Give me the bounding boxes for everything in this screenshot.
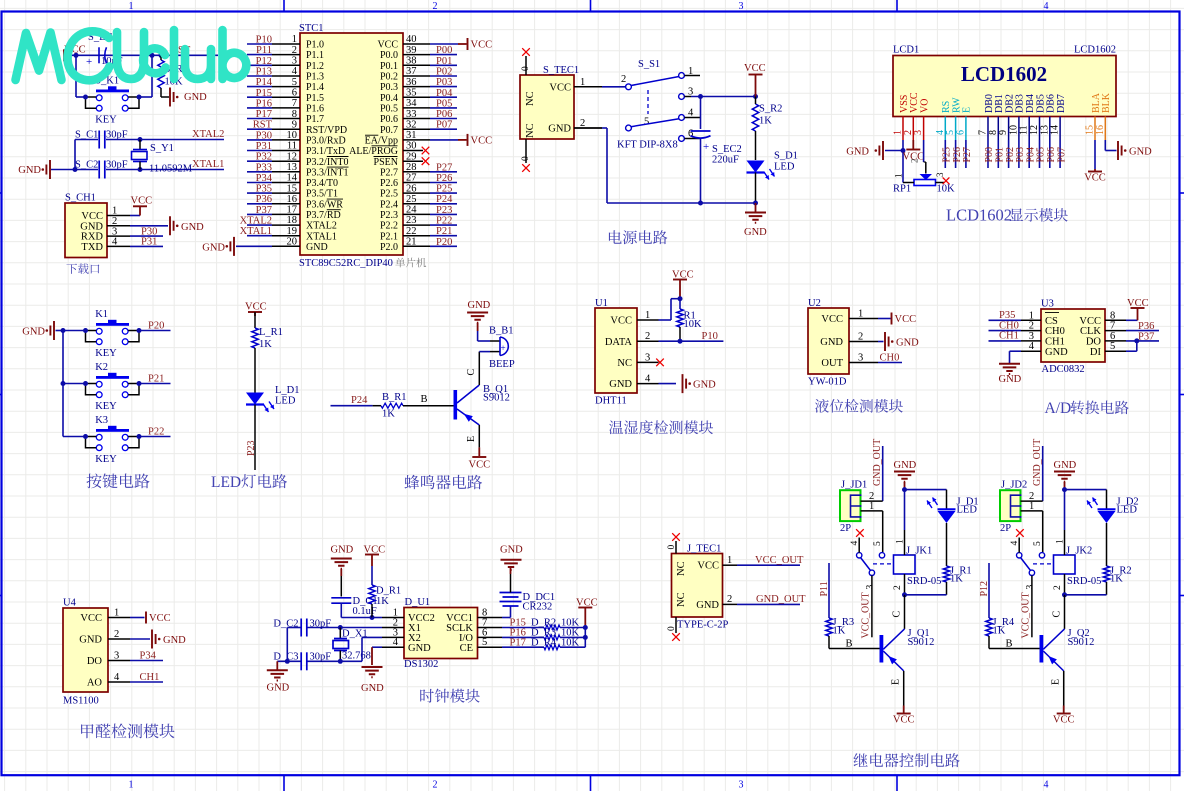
svg-text:28: 28 xyxy=(406,162,417,173)
svg-text:P3.0/RxD: P3.0/RxD xyxy=(306,136,346,147)
svg-text:26: 26 xyxy=(406,183,417,194)
svg-text:DO: DO xyxy=(87,656,103,667)
svg-text:XTAL1: XTAL1 xyxy=(192,159,224,170)
svg-text:VCC_OUT: VCC_OUT xyxy=(755,555,804,566)
svg-text:GND_OUT: GND_OUT xyxy=(1032,439,1043,486)
svg-text:3: 3 xyxy=(1026,585,1036,590)
svg-text:2: 2 xyxy=(1053,585,1063,590)
svg-text:2: 2 xyxy=(858,332,863,343)
svg-text:37: 37 xyxy=(406,66,417,77)
svg-text:P17: P17 xyxy=(256,109,272,120)
svg-text:D_U1: D_U1 xyxy=(405,597,431,608)
svg-text:P1.5: P1.5 xyxy=(306,93,324,104)
svg-text:VCC: VCC xyxy=(80,613,102,624)
svg-text:1: 1 xyxy=(1029,501,1034,512)
svg-text:3: 3 xyxy=(114,651,119,662)
svg-text:1: 1 xyxy=(129,780,134,791)
svg-text:1: 1 xyxy=(114,608,119,619)
svg-text:27: 27 xyxy=(406,173,417,184)
svg-text:P31: P31 xyxy=(141,237,157,248)
svg-text:GND_OUT: GND_OUT xyxy=(756,594,806,605)
svg-text:1: 1 xyxy=(645,310,650,321)
svg-text:VCC: VCC xyxy=(895,314,917,325)
svg-text:U1: U1 xyxy=(595,298,608,309)
svg-text:P11: P11 xyxy=(256,45,272,56)
svg-text:P1.0: P1.0 xyxy=(306,40,324,51)
svg-text:VCC: VCC xyxy=(245,302,267,313)
svg-text:1: 1 xyxy=(580,77,585,88)
svg-text:LED: LED xyxy=(275,396,296,407)
svg-text:DS1302: DS1302 xyxy=(404,659,438,670)
svg-text:P0.4: P0.4 xyxy=(380,93,398,104)
svg-text:16: 16 xyxy=(1095,125,1106,135)
svg-text:NC: NC xyxy=(525,123,536,138)
svg-text:32.768: 32.768 xyxy=(342,651,371,662)
svg-text:P32: P32 xyxy=(256,152,272,163)
svg-text:XTAL2: XTAL2 xyxy=(240,216,272,227)
svg-text:P3.3/INT1: P3.3/INT1 xyxy=(306,167,349,178)
svg-text:2: 2 xyxy=(727,594,732,605)
svg-text:P0.1: P0.1 xyxy=(380,61,398,72)
svg-text:P01: P01 xyxy=(436,56,452,67)
svg-text:D_C2: D_C2 xyxy=(273,619,298,630)
svg-text:C: C xyxy=(892,611,903,618)
svg-text:C: C xyxy=(466,369,477,376)
svg-text:P27: P27 xyxy=(436,162,452,173)
svg-text:VCC: VCC xyxy=(1084,173,1106,184)
svg-text:RST: RST xyxy=(253,120,273,131)
svg-text:GND: GND xyxy=(693,380,716,391)
svg-text:GND: GND xyxy=(18,165,41,176)
svg-text:15: 15 xyxy=(287,183,298,194)
svg-text:1: 1 xyxy=(129,1,134,12)
svg-text:GND: GND xyxy=(744,227,767,238)
svg-text:GND: GND xyxy=(894,460,917,471)
svg-text:GND: GND xyxy=(500,545,523,556)
svg-text:P10: P10 xyxy=(256,35,272,46)
svg-text:P2.4: P2.4 xyxy=(380,199,398,210)
svg-text:29: 29 xyxy=(406,151,417,162)
svg-text:GND: GND xyxy=(184,92,207,103)
svg-text:GND: GND xyxy=(896,338,919,349)
svg-text:P37: P37 xyxy=(1138,332,1154,343)
svg-text:P13: P13 xyxy=(256,67,272,78)
svg-text:CR232: CR232 xyxy=(523,602,553,613)
svg-text:NC: NC xyxy=(617,358,632,369)
svg-text:VCC_OUT: VCC_OUT xyxy=(861,592,872,638)
svg-text:30pF: 30pF xyxy=(310,652,332,663)
svg-text:+: + xyxy=(703,141,709,153)
svg-text:VCC: VCC xyxy=(471,39,493,50)
svg-text:P23: P23 xyxy=(246,440,257,456)
svg-text:30: 30 xyxy=(406,141,417,152)
svg-text:P06: P06 xyxy=(436,109,452,120)
svg-text:CH1: CH1 xyxy=(999,331,1019,342)
svg-text:NC: NC xyxy=(676,561,687,576)
svg-text:B: B xyxy=(1006,639,1013,650)
svg-text:2: 2 xyxy=(910,159,920,164)
svg-text:P05: P05 xyxy=(436,98,452,109)
svg-text:GND: GND xyxy=(1045,347,1068,358)
svg-text:A/D: A/D xyxy=(1045,400,1072,417)
svg-text:14: 14 xyxy=(1050,125,1061,135)
svg-text:GND: GND xyxy=(79,635,102,646)
svg-text:U3: U3 xyxy=(1041,299,1054,310)
svg-text:P1.6: P1.6 xyxy=(306,104,324,115)
svg-text:1: 1 xyxy=(1056,539,1066,544)
svg-text:LCD1: LCD1 xyxy=(893,45,919,56)
svg-text:VCC: VCC xyxy=(377,40,398,51)
svg-text:VCC: VCC xyxy=(131,196,153,207)
svg-text:P21: P21 xyxy=(148,374,164,385)
svg-text:10K: 10K xyxy=(937,184,956,195)
svg-text:1K: 1K xyxy=(833,626,846,637)
svg-text:S_Y1: S_Y1 xyxy=(150,143,174,154)
svg-text:6: 6 xyxy=(955,130,966,135)
svg-text:P34: P34 xyxy=(256,173,273,184)
svg-text:35: 35 xyxy=(406,88,417,99)
svg-text:NC: NC xyxy=(525,91,536,106)
svg-text:LED: LED xyxy=(774,162,795,173)
svg-text:OUT: OUT xyxy=(821,358,843,369)
svg-text:B: B xyxy=(421,394,428,405)
svg-text:P3.1/TxD: P3.1/TxD xyxy=(306,146,345,157)
svg-text:CH1: CH1 xyxy=(140,672,160,683)
svg-text:GND: GND xyxy=(548,124,571,135)
svg-text:P07: P07 xyxy=(436,120,452,131)
svg-text:VCC: VCC xyxy=(1127,298,1149,309)
svg-text:P2.2: P2.2 xyxy=(380,221,398,232)
svg-text:P3.2/INT0: P3.2/INT0 xyxy=(306,157,349,168)
svg-text:GND: GND xyxy=(267,683,290,694)
svg-text:22: 22 xyxy=(406,226,417,237)
svg-text:6: 6 xyxy=(292,88,297,99)
svg-text:TXD: TXD xyxy=(81,242,103,253)
svg-text:P3.4/T0: P3.4/T0 xyxy=(306,178,338,189)
svg-text:VCC: VCC xyxy=(1053,715,1075,726)
svg-text:2: 2 xyxy=(433,1,438,12)
svg-text:1K: 1K xyxy=(759,116,772,127)
svg-text:0: 0 xyxy=(521,66,531,71)
svg-text:DI: DI xyxy=(1090,347,1102,358)
svg-text:P03: P03 xyxy=(436,77,452,88)
svg-text:VCC_OUT: VCC_OUT xyxy=(1021,592,1032,638)
svg-text:11: 11 xyxy=(287,141,297,152)
svg-text:GND_OUT: GND_OUT xyxy=(872,439,883,486)
svg-text:P22: P22 xyxy=(436,216,452,227)
svg-text:8: 8 xyxy=(292,109,297,120)
svg-text:MS1100: MS1100 xyxy=(63,696,99,707)
svg-text:CE: CE xyxy=(460,643,473,654)
svg-text:VCC: VCC xyxy=(893,715,915,726)
svg-text:10: 10 xyxy=(287,130,298,141)
svg-text:GND: GND xyxy=(306,242,328,253)
svg-text:GND: GND xyxy=(331,545,354,556)
svg-text:LED: LED xyxy=(1117,505,1138,516)
svg-text:GND: GND xyxy=(609,379,632,390)
svg-text:3: 3 xyxy=(935,172,945,177)
svg-text:P35: P35 xyxy=(256,184,272,195)
svg-text:DATA: DATA xyxy=(605,337,633,348)
svg-text:GND: GND xyxy=(1054,460,1077,471)
svg-text:P0.3: P0.3 xyxy=(380,82,398,93)
svg-text:9: 9 xyxy=(292,119,297,130)
svg-text:10K: 10K xyxy=(561,637,580,648)
svg-text:1K: 1K xyxy=(376,596,389,607)
svg-text:1K: 1K xyxy=(1110,574,1123,585)
svg-text:P2.3: P2.3 xyxy=(380,210,398,221)
svg-text:ALE/PROG: ALE/PROG xyxy=(349,146,398,157)
svg-text:P0.5: P0.5 xyxy=(380,104,398,115)
svg-text:P37: P37 xyxy=(256,205,272,216)
svg-text:3: 3 xyxy=(858,353,863,364)
svg-text:C: C xyxy=(1052,611,1063,618)
svg-text:4: 4 xyxy=(292,66,298,77)
svg-text:P07: P07 xyxy=(1056,147,1067,163)
svg-text:PSEN: PSEN xyxy=(374,157,398,168)
svg-text:ADC0832: ADC0832 xyxy=(1042,364,1085,375)
svg-text:S_D1: S_D1 xyxy=(774,151,798,162)
svg-text:E: E xyxy=(891,679,902,685)
svg-text:XTAL2: XTAL2 xyxy=(192,129,224,140)
svg-text:P04: P04 xyxy=(436,88,453,99)
svg-text:P10: P10 xyxy=(702,331,718,342)
svg-text:13: 13 xyxy=(287,162,298,173)
svg-text:3: 3 xyxy=(913,130,924,135)
svg-text:NC: NC xyxy=(676,592,687,607)
svg-text:LED: LED xyxy=(957,505,978,516)
svg-text:5: 5 xyxy=(1033,541,1043,546)
svg-text:B_R1: B_R1 xyxy=(382,392,407,403)
svg-text:VCC: VCC xyxy=(821,314,843,325)
svg-text:0: 0 xyxy=(667,545,677,550)
svg-text:YW-01D: YW-01D xyxy=(808,377,847,388)
svg-text:D_R4: D_R4 xyxy=(531,637,557,648)
svg-text:VCC: VCC xyxy=(149,613,171,624)
svg-text:VCC: VCC xyxy=(610,316,632,327)
svg-text:4: 4 xyxy=(850,541,860,546)
svg-text:GND: GND xyxy=(820,337,843,348)
svg-text:P25: P25 xyxy=(436,184,452,195)
svg-text:GND: GND xyxy=(181,222,204,233)
svg-text:P31: P31 xyxy=(256,141,272,152)
svg-text:12: 12 xyxy=(287,151,298,162)
svg-text:3: 3 xyxy=(866,585,876,590)
svg-text:36: 36 xyxy=(406,77,417,88)
svg-text:P2.0: P2.0 xyxy=(380,242,398,253)
svg-text:E: E xyxy=(962,107,973,113)
svg-text:VO: VO xyxy=(919,99,930,113)
svg-text:P36: P36 xyxy=(1138,321,1154,332)
svg-text:CH0: CH0 xyxy=(880,353,900,364)
svg-text:P0.0: P0.0 xyxy=(380,50,398,61)
svg-text:4: 4 xyxy=(1029,341,1035,352)
svg-text:17: 17 xyxy=(287,205,298,216)
svg-text:KEY: KEY xyxy=(95,348,117,359)
svg-text:1: 1 xyxy=(869,501,874,512)
svg-text:KEY: KEY xyxy=(95,401,117,412)
svg-text:18: 18 xyxy=(287,215,298,226)
svg-text:GND: GND xyxy=(1129,147,1152,158)
svg-text:LED: LED xyxy=(211,474,241,491)
svg-text:2: 2 xyxy=(433,780,438,791)
svg-text:25: 25 xyxy=(406,194,417,205)
svg-text:J_JK1: J_JK1 xyxy=(906,546,932,557)
svg-text:L_R1: L_R1 xyxy=(259,327,283,338)
svg-text:1: 1 xyxy=(896,539,906,544)
svg-text:31: 31 xyxy=(406,130,417,141)
svg-text:1: 1 xyxy=(858,309,863,320)
svg-text:P20: P20 xyxy=(148,321,164,332)
svg-text:J_JK2: J_JK2 xyxy=(1066,546,1092,557)
svg-text:P26: P26 xyxy=(436,173,452,184)
svg-text:2: 2 xyxy=(292,45,297,56)
svg-text:VCC: VCC xyxy=(744,63,766,74)
svg-text:2P: 2P xyxy=(1000,523,1011,534)
svg-text:P17: P17 xyxy=(510,637,526,648)
svg-text:XTAL1: XTAL1 xyxy=(306,231,337,242)
svg-text:BEEP: BEEP xyxy=(489,359,515,370)
svg-text:S9012: S9012 xyxy=(1068,637,1095,648)
svg-text:5: 5 xyxy=(644,117,649,128)
svg-text:16: 16 xyxy=(287,194,298,205)
svg-text:P0.6: P0.6 xyxy=(380,114,398,125)
svg-text:SRD-05: SRD-05 xyxy=(907,576,941,587)
svg-text:J_TEC1: J_TEC1 xyxy=(687,544,721,555)
svg-text:14: 14 xyxy=(287,173,298,184)
svg-text:19: 19 xyxy=(287,226,298,237)
svg-text:1: 1 xyxy=(727,555,732,566)
svg-text:LCD1602: LCD1602 xyxy=(961,62,1047,86)
svg-text:40: 40 xyxy=(406,34,417,45)
svg-text:P2.7: P2.7 xyxy=(380,167,398,178)
svg-text:2: 2 xyxy=(893,585,903,590)
svg-text:P12: P12 xyxy=(256,56,272,67)
svg-text:3: 3 xyxy=(739,1,744,12)
svg-text:KEY: KEY xyxy=(95,454,117,465)
svg-text:VCC: VCC xyxy=(471,135,493,146)
svg-text:P24: P24 xyxy=(436,194,453,205)
svg-text:P36: P36 xyxy=(256,194,272,205)
svg-text:SRD-05: SRD-05 xyxy=(1067,576,1101,587)
svg-text:30pF: 30pF xyxy=(310,619,332,630)
svg-text:VCC: VCC xyxy=(697,561,719,572)
svg-text:34: 34 xyxy=(406,98,417,109)
svg-text:P1.1: P1.1 xyxy=(306,50,324,61)
svg-text:P27: P27 xyxy=(962,147,973,163)
svg-text:1K: 1K xyxy=(993,626,1006,637)
svg-text:E: E xyxy=(466,436,477,442)
svg-text:P14: P14 xyxy=(256,77,273,88)
svg-text:P3.7/RD: P3.7/RD xyxy=(306,210,341,221)
svg-text:P23: P23 xyxy=(436,205,452,216)
svg-text:4: 4 xyxy=(112,237,118,248)
svg-text:J_JD2: J_JD2 xyxy=(1001,480,1027,491)
svg-text:K3: K3 xyxy=(95,415,108,426)
svg-text:GND: GND xyxy=(22,327,45,338)
svg-text:32: 32 xyxy=(406,119,417,130)
svg-text:P15: P15 xyxy=(256,88,272,99)
svg-text:3: 3 xyxy=(645,352,650,363)
svg-text:20: 20 xyxy=(287,237,298,248)
svg-text:3: 3 xyxy=(292,56,297,67)
svg-text:24: 24 xyxy=(406,205,417,216)
svg-text:5: 5 xyxy=(1110,341,1115,352)
svg-text:1K: 1K xyxy=(950,574,963,585)
svg-text:P33: P33 xyxy=(256,162,272,173)
svg-text:P2.1: P2.1 xyxy=(380,231,398,242)
svg-text:P3.5/T1: P3.5/T1 xyxy=(306,189,338,200)
svg-text:10K: 10K xyxy=(684,319,703,330)
svg-text:38: 38 xyxy=(406,56,417,67)
svg-text:K2: K2 xyxy=(95,362,108,373)
svg-text:GND: GND xyxy=(468,300,491,311)
svg-text:P1.2: P1.2 xyxy=(306,61,324,72)
svg-text:P1.3: P1.3 xyxy=(306,72,324,83)
svg-text:XTAL1: XTAL1 xyxy=(240,226,272,237)
svg-text:GND: GND xyxy=(999,374,1022,385)
svg-text:P22: P22 xyxy=(148,427,164,438)
svg-text:S9012: S9012 xyxy=(908,637,935,648)
svg-text:P21: P21 xyxy=(436,226,452,237)
svg-text:VCC: VCC xyxy=(549,83,571,94)
svg-text:23: 23 xyxy=(406,215,417,226)
svg-text:2: 2 xyxy=(114,629,119,640)
svg-text:S_R2: S_R2 xyxy=(759,104,782,115)
svg-text:E: E xyxy=(1051,679,1062,685)
svg-text:LCD1602: LCD1602 xyxy=(1074,45,1116,56)
svg-text:P0.7: P0.7 xyxy=(380,125,398,136)
svg-text:GND: GND xyxy=(696,600,719,611)
svg-text:K1: K1 xyxy=(95,309,108,320)
svg-text:P1.4: P1.4 xyxy=(306,82,324,93)
svg-text:2P: 2P xyxy=(840,523,851,534)
svg-text:D_R1: D_R1 xyxy=(376,586,401,597)
svg-text:P02: P02 xyxy=(436,67,452,78)
svg-text:+: + xyxy=(86,56,92,68)
svg-text:4: 4 xyxy=(393,637,399,648)
svg-text:S9012: S9012 xyxy=(483,393,510,404)
svg-text:GND: GND xyxy=(361,683,384,694)
svg-text:4: 4 xyxy=(1044,1,1049,12)
svg-text:KEY: KEY xyxy=(95,115,117,126)
svg-text:STC89C52RC_DIP40: STC89C52RC_DIP40 xyxy=(299,258,393,269)
svg-text:P2.5: P2.5 xyxy=(380,189,398,200)
svg-text:P20: P20 xyxy=(436,237,452,248)
svg-text:11.0592M: 11.0592M xyxy=(149,164,193,175)
svg-text:P3.6/WR: P3.6/WR xyxy=(306,199,343,210)
svg-text:4: 4 xyxy=(1044,780,1049,791)
svg-text:KFT DIP-8X8: KFT DIP-8X8 xyxy=(617,140,678,151)
svg-text:GND: GND xyxy=(408,643,431,654)
svg-text:RP1: RP1 xyxy=(893,184,911,195)
svg-text:7: 7 xyxy=(292,98,297,109)
svg-text:0: 0 xyxy=(667,626,677,631)
svg-text:1: 1 xyxy=(292,34,297,45)
svg-text:5: 5 xyxy=(873,541,883,546)
svg-text:U4: U4 xyxy=(63,598,77,609)
svg-text:5: 5 xyxy=(482,637,487,648)
svg-text:1K: 1K xyxy=(259,339,272,350)
svg-text:4: 4 xyxy=(1010,541,1020,546)
svg-text:2: 2 xyxy=(621,74,626,85)
svg-text:XTAL2: XTAL2 xyxy=(306,221,337,232)
svg-text:J_JD1: J_JD1 xyxy=(841,480,867,491)
svg-text:L_D1: L_D1 xyxy=(275,385,300,396)
svg-text:DB7: DB7 xyxy=(1056,94,1067,113)
svg-text:S_TEC1: S_TEC1 xyxy=(543,65,579,76)
svg-text:+: + xyxy=(501,343,506,353)
